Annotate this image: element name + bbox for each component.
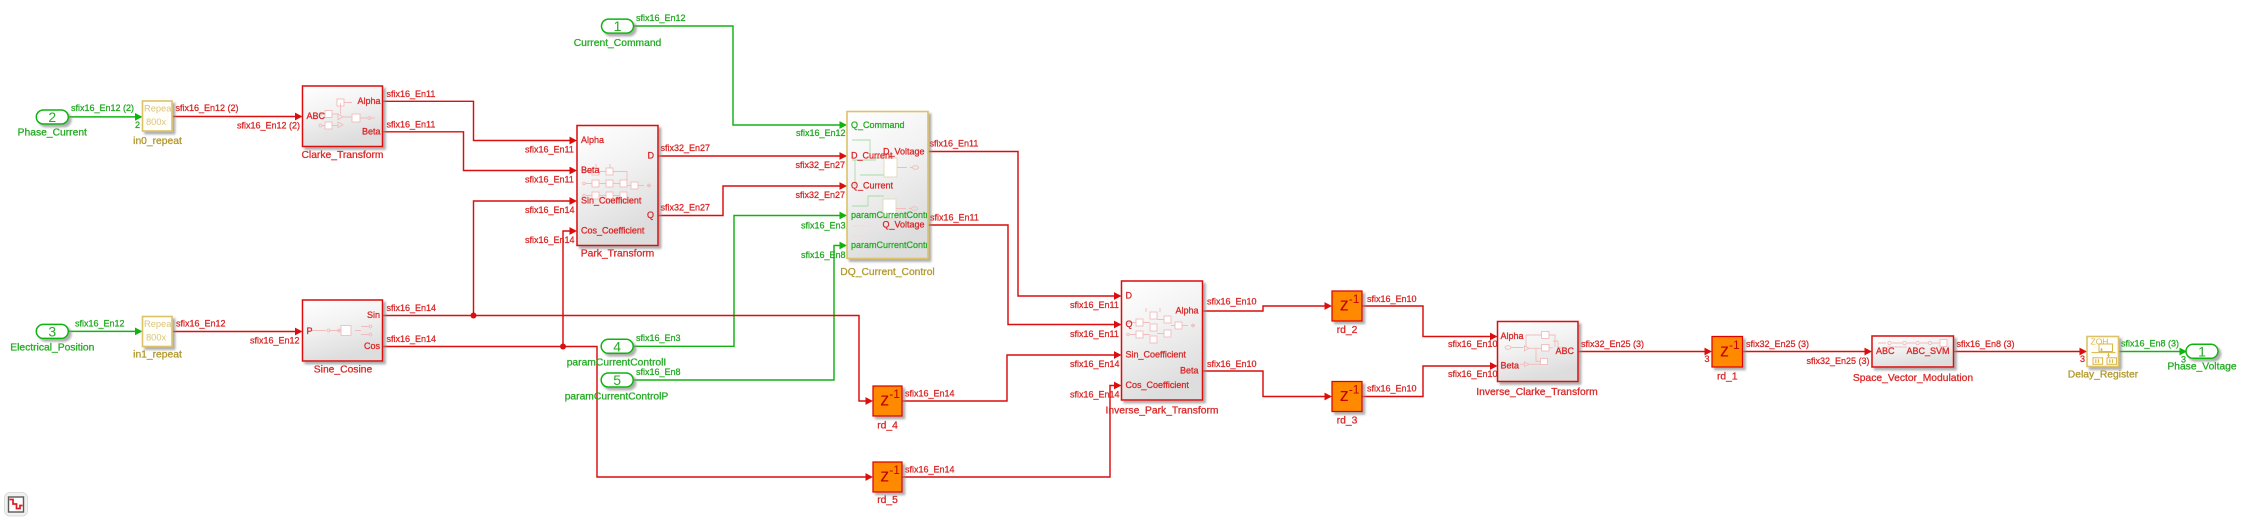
svg-text:sfix16_En11: sfix16_En11 bbox=[525, 174, 574, 184]
junction Cos branch bbox=[560, 344, 566, 350]
svg-text:sfix16_En3: sfix16_En3 bbox=[636, 333, 681, 343]
svg-text:Beta: Beta bbox=[1180, 366, 1199, 376]
block Clarke_Transform bbox=[303, 86, 383, 147]
svg-text:Q: Q bbox=[647, 210, 654, 220]
svg-text:5: 5 bbox=[613, 372, 621, 388]
DQ_Current_Control internal sketch bbox=[852, 140, 897, 218]
svg-text:Park_Transform: Park_Transform bbox=[581, 249, 654, 260]
svg-text:D: D bbox=[1126, 291, 1133, 301]
wire rd_1 -> Space_Vector_Modulation bbox=[1743, 348, 1873, 356]
wire Space_Vector_Modulation -> Delay_Register bbox=[1954, 348, 2088, 356]
input port 1 Current_Command bbox=[602, 18, 634, 34]
svg-text:sfix16_En12 (2): sfix16_En12 (2) bbox=[237, 121, 300, 131]
svg-text:z: z bbox=[880, 390, 889, 410]
svg-text:sfix16_En14: sfix16_En14 bbox=[387, 303, 437, 313]
svg-text:P: P bbox=[307, 326, 313, 336]
junction Sin branch bbox=[471, 313, 477, 319]
svg-text:Sin_Coefficient: Sin_Coefficient bbox=[1126, 350, 1187, 360]
svg-text:z: z bbox=[1340, 295, 1349, 315]
svg-text:Beta: Beta bbox=[581, 165, 600, 175]
svg-text:ABC: ABC bbox=[307, 111, 326, 121]
svg-text:rd_1: rd_1 bbox=[1717, 372, 1738, 383]
svg-text:sfix16_En10: sfix16_En10 bbox=[1207, 359, 1257, 369]
Inverse_Clarke_Transform internal sketch bbox=[1505, 332, 1567, 367]
wire DQ D_Voltage -> Inverse_Park D bbox=[928, 152, 1122, 300]
svg-text:rd_3: rd_3 bbox=[1337, 416, 1358, 427]
svg-text:sfix16_En10: sfix16_En10 bbox=[1207, 296, 1257, 306]
svg-text:paramCurrentControlP: paramCurrentControlP bbox=[565, 392, 669, 403]
svg-text:sfix16_En11: sfix16_En11 bbox=[1070, 329, 1119, 339]
wire Cos branch -> Park Cos_Coefficient bbox=[563, 227, 577, 346]
wire Park Q -> DQ Q_Current bbox=[658, 182, 847, 215]
svg-text:Q_Current: Q_Current bbox=[851, 181, 894, 191]
svg-text:Alpha: Alpha bbox=[1175, 306, 1198, 316]
model badge (step-signal icon) bbox=[5, 493, 28, 517]
wire Inverse_Park Alpha -> rd_2 bbox=[1203, 302, 1333, 311]
svg-text:3: 3 bbox=[2080, 354, 2085, 364]
svg-text:Q: Q bbox=[1126, 319, 1133, 329]
wire Park D -> DQ D_Current bbox=[658, 152, 847, 160]
wire Clarke Beta -> Park Beta bbox=[383, 132, 578, 175]
wire Clarke Alpha -> Park Alpha bbox=[383, 101, 578, 144]
svg-text:ZOH: ZOH bbox=[2091, 336, 2109, 346]
svg-text:paramCurrentControlI: paramCurrentControlI bbox=[851, 210, 938, 220]
wire rd_2 -> Inverse_Clarke Alpha bbox=[1362, 306, 1498, 340]
svg-text:sfix16_En10: sfix16_En10 bbox=[1448, 339, 1498, 349]
svg-text:Beta: Beta bbox=[1501, 361, 1520, 371]
wire Electrical_Position -> in1_repeat bbox=[68, 328, 142, 336]
Clarke_Transform internal sketch bbox=[319, 99, 375, 129]
svg-text:sfix16_En11: sfix16_En11 bbox=[525, 144, 574, 154]
block in0_repeat (Repeat 800x) bbox=[143, 101, 173, 131]
unit delay rd_3 (z^-1) bbox=[1332, 382, 1362, 412]
block Sine_Cosine bbox=[303, 300, 383, 361]
Inverse_Park_Transform internal sketch bbox=[1127, 308, 1195, 343]
svg-text:ABC_SVM: ABC_SVM bbox=[1906, 346, 1949, 356]
svg-text:800x: 800x bbox=[146, 333, 167, 343]
unit delay rd_2 (z^-1) bbox=[1332, 291, 1362, 321]
svg-text:z: z bbox=[1340, 385, 1349, 405]
svg-text:Sin_Coefficient: Sin_Coefficient bbox=[581, 196, 642, 206]
svg-text:ABC: ABC bbox=[1555, 346, 1574, 356]
svg-text:1: 1 bbox=[2198, 343, 2206, 359]
wire Sine_Cosine Cos -> rd_5 bbox=[383, 347, 874, 481]
wire rd_3 -> Inverse_Clarke Beta bbox=[1362, 362, 1498, 396]
wire Sine_Cosine Sin -> rd_4 bbox=[383, 316, 874, 405]
input port 2 Phase_Current bbox=[36, 109, 68, 125]
svg-text:sfix16_En14: sfix16_En14 bbox=[1070, 389, 1120, 399]
Delay_Register ZOH icon bbox=[2092, 344, 2117, 364]
svg-text:800x: 800x bbox=[146, 117, 167, 127]
svg-text:sfix16_En11: sfix16_En11 bbox=[387, 89, 436, 99]
wire Current_Command -> DQ Q_Command bbox=[634, 26, 848, 129]
svg-text:2: 2 bbox=[135, 120, 140, 130]
wire Inverse_Clarke ABC -> rd_1 bbox=[1578, 348, 1712, 356]
block Inverse_Park_Transform bbox=[1122, 281, 1203, 400]
svg-text:Space_Vector_Modulation: Space_Vector_Modulation bbox=[1853, 373, 1973, 384]
svg-text:sfix16_En11: sfix16_En11 bbox=[930, 138, 979, 148]
wire paramCurrentControlI -> DQ bbox=[633, 212, 847, 347]
svg-text:sfix16_En10: sfix16_En10 bbox=[1367, 294, 1417, 304]
wire Sin branch -> Park Sin_Coefficient bbox=[474, 197, 578, 315]
svg-text:3: 3 bbox=[1705, 354, 1710, 364]
svg-text:sfix16_En14: sfix16_En14 bbox=[525, 235, 575, 245]
svg-text:Inverse_Park_Transform: Inverse_Park_Transform bbox=[1106, 406, 1219, 417]
unit delay rd_5 (z^-1) bbox=[873, 462, 902, 492]
svg-text:sfix32_En27: sfix32_En27 bbox=[661, 143, 711, 153]
svg-text:sfix16_En12: sfix16_En12 bbox=[75, 318, 125, 328]
svg-text:2: 2 bbox=[48, 109, 56, 125]
svg-text:sfix32_En25 (3): sfix32_En25 (3) bbox=[1807, 356, 1870, 366]
svg-text:Q_Command: Q_Command bbox=[851, 120, 905, 130]
svg-text:sfix16_En12: sfix16_En12 bbox=[796, 128, 846, 138]
block Park_Transform bbox=[577, 126, 658, 246]
svg-text:Alpha: Alpha bbox=[1501, 331, 1524, 341]
svg-text:z: z bbox=[880, 466, 889, 486]
svg-text:Cos_Coefficient: Cos_Coefficient bbox=[1126, 380, 1190, 390]
svg-text:-1: -1 bbox=[1349, 292, 1360, 306]
svg-text:sfix16_En14: sfix16_En14 bbox=[1070, 359, 1120, 369]
svg-text:Clarke_Transform: Clarke_Transform bbox=[301, 150, 383, 161]
svg-text:Cos_Coefficient: Cos_Coefficient bbox=[581, 226, 645, 236]
svg-text:sfix16_En12: sfix16_En12 bbox=[176, 318, 226, 328]
svg-text:sfix16_En14: sfix16_En14 bbox=[905, 464, 955, 474]
svg-text:Phase_Current: Phase_Current bbox=[18, 128, 87, 139]
svg-text:Q_Voltage: Q_Voltage bbox=[882, 220, 924, 230]
svg-text:4: 4 bbox=[613, 338, 621, 354]
input port 5 paramCurrentControlP bbox=[601, 372, 633, 388]
svg-text:sfix16_En10: sfix16_En10 bbox=[1448, 369, 1498, 379]
svg-text:sfix16_En3: sfix16_En3 bbox=[801, 220, 846, 230]
wire Inverse_Park Beta -> rd_3 bbox=[1203, 371, 1333, 400]
svg-text:sfix16_En14: sfix16_En14 bbox=[525, 205, 575, 215]
svg-text:Phase_Voltage: Phase_Voltage bbox=[2167, 362, 2237, 373]
Space_Vector_Modulation internal sketch bbox=[1878, 340, 1947, 348]
output port 1 Phase_Voltage bbox=[2186, 343, 2218, 359]
svg-text:rd_4: rd_4 bbox=[877, 421, 898, 432]
input port 4 paramCurrentControlI bbox=[601, 338, 633, 354]
svg-text:rd_5: rd_5 bbox=[877, 495, 898, 506]
wire paramCurrentControlP -> DQ bbox=[633, 242, 847, 380]
svg-text:paramCurrentControlI: paramCurrentControlI bbox=[567, 358, 667, 369]
svg-text:sfix16_En12 (2): sfix16_En12 (2) bbox=[71, 103, 134, 113]
Park_Transform internal sketch bbox=[583, 164, 651, 199]
wire in1_repeat -> Sine_Cosine P bbox=[173, 328, 303, 336]
unit delay rd_1 (z^-1) bbox=[1712, 337, 1743, 368]
svg-text:sfix16_En8: sfix16_En8 bbox=[801, 250, 846, 260]
svg-text:sfix16_En12: sfix16_En12 bbox=[636, 13, 686, 23]
svg-text:in1_repeat: in1_repeat bbox=[133, 350, 182, 361]
wire Delay_Register -> Phase_Voltage bbox=[2119, 348, 2188, 356]
svg-text:sfix32_En25 (3): sfix32_En25 (3) bbox=[1581, 339, 1644, 349]
svg-text:sfix32_En27: sfix32_En27 bbox=[661, 202, 711, 212]
svg-text:ABC: ABC bbox=[1876, 346, 1895, 356]
svg-text:sfix16_En11: sfix16_En11 bbox=[387, 119, 436, 129]
svg-text:Repeat: Repeat bbox=[144, 319, 174, 329]
svg-text:sfix16_En11: sfix16_En11 bbox=[930, 212, 979, 222]
svg-text:Beta: Beta bbox=[362, 126, 381, 136]
svg-text:rd_2: rd_2 bbox=[1337, 325, 1358, 336]
block Inverse_Clarke_Transform bbox=[1498, 322, 1579, 382]
wire DQ Q_Voltage -> Inverse_Park Q bbox=[928, 225, 1122, 328]
svg-text:Sine_Cosine: Sine_Cosine bbox=[314, 365, 373, 376]
svg-text:sfix16_En11: sfix16_En11 bbox=[1070, 300, 1119, 310]
svg-text:-1: -1 bbox=[889, 463, 900, 477]
svg-text:sfix16_En14: sfix16_En14 bbox=[905, 388, 955, 398]
block in1_repeat (Repeat 800x) bbox=[143, 317, 173, 347]
svg-text:D_Voltage: D_Voltage bbox=[883, 146, 925, 156]
svg-text:sfix16_En12: sfix16_En12 bbox=[250, 336, 300, 346]
svg-text:sfix16_En12 (2): sfix16_En12 (2) bbox=[176, 103, 239, 113]
svg-text:Sin: Sin bbox=[367, 310, 380, 320]
svg-text:sfix32_En27: sfix32_En27 bbox=[796, 160, 846, 170]
svg-text:z: z bbox=[1720, 340, 1729, 360]
svg-text:in0_repeat: in0_repeat bbox=[133, 136, 182, 147]
svg-text:3: 3 bbox=[48, 323, 56, 339]
svg-text:Alpha: Alpha bbox=[357, 96, 380, 106]
wire Phase_Current -> in0_repeat bbox=[68, 113, 142, 121]
svg-text:sfix16_En8 (3): sfix16_En8 (3) bbox=[1957, 339, 2015, 349]
svg-text:sfix16_En10: sfix16_En10 bbox=[1367, 383, 1417, 393]
block Space_Vector_Modulation bbox=[1872, 336, 1954, 367]
svg-text:-1: -1 bbox=[1349, 383, 1360, 397]
svg-text:D: D bbox=[648, 151, 655, 161]
svg-text:sfix16_En14: sfix16_En14 bbox=[387, 334, 437, 344]
Sine_Cosine internal sketch bbox=[312, 325, 372, 336]
svg-text:Delay_Register: Delay_Register bbox=[2068, 370, 2139, 381]
svg-text:sfix32_En25 (3): sfix32_En25 (3) bbox=[1746, 339, 1809, 349]
svg-text:Current_Command: Current_Command bbox=[574, 38, 662, 49]
block Delay_Register (ZOH) bbox=[2087, 337, 2119, 367]
svg-text:Inverse_Clarke_Transform: Inverse_Clarke_Transform bbox=[1476, 387, 1598, 398]
svg-text:Cos: Cos bbox=[364, 341, 381, 351]
svg-text:Repeat: Repeat bbox=[144, 104, 174, 114]
svg-text:-1: -1 bbox=[889, 387, 900, 401]
block DQ_Current_Control bbox=[847, 112, 928, 259]
svg-text:1: 1 bbox=[614, 18, 622, 34]
unit delay rd_4 (z^-1) bbox=[873, 386, 902, 416]
wire rd_4 -> Inverse_Park Sin_Coefficient bbox=[902, 351, 1122, 401]
svg-text:-1: -1 bbox=[1729, 338, 1740, 352]
svg-text:Alpha: Alpha bbox=[581, 135, 604, 145]
svg-text:Electrical_Position: Electrical_Position bbox=[10, 343, 94, 354]
svg-text:sfix32_En27: sfix32_En27 bbox=[796, 190, 846, 200]
wire rd_5 -> Inverse_Park Cos_Coefficient bbox=[902, 382, 1122, 477]
input port 3 Electrical_Position bbox=[36, 323, 68, 339]
svg-text:sfix16_En8 (3): sfix16_En8 (3) bbox=[2121, 338, 2179, 348]
svg-text:DQ_Current_Control: DQ_Current_Control bbox=[840, 267, 934, 278]
wire in0_repeat -> Clarke_Transform ABC bbox=[173, 113, 303, 121]
